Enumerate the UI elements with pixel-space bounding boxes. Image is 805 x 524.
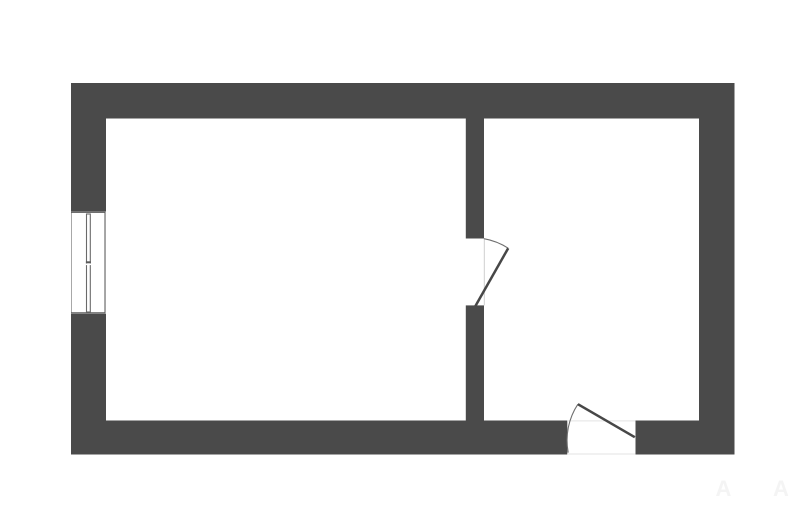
window W1 glazing double line xyxy=(87,214,91,312)
bottom door opening in bottom wall xyxy=(567,421,635,455)
window W1 top line xyxy=(71,211,105,213)
interior wall upper segment xyxy=(466,119,484,239)
door D1 leaf xyxy=(475,248,508,306)
interior wall lower segment xyxy=(466,305,484,420)
door D1 frame line (closed position) xyxy=(483,239,485,306)
window W1 bottom line xyxy=(71,312,105,314)
window W1 middle sash tick xyxy=(86,261,91,263)
door D2 leaf xyxy=(578,404,635,437)
bottom door opening faint bottom edge xyxy=(567,453,635,455)
door D1 swing arc xyxy=(484,239,508,249)
exterior walls xyxy=(71,83,735,455)
window W1 frame xyxy=(72,212,105,313)
svg-text:A: A xyxy=(773,476,789,501)
bottom door opening faint top edge xyxy=(567,420,635,422)
window opening in left wall xyxy=(71,211,106,314)
window W1 sash gap xyxy=(86,264,91,266)
svg-text:A: A xyxy=(716,476,732,501)
door D2 swing arc xyxy=(567,404,578,452)
